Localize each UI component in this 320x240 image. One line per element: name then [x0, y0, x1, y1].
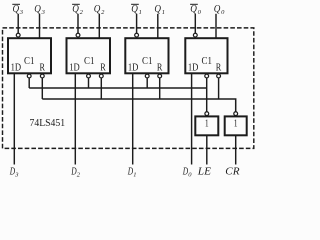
wire FF2 R to CR bus — [100, 78, 102, 99]
wire D1 input — [132, 74, 134, 165]
wire FF0 R to CR bus — [218, 78, 220, 99]
FF3 pin label 1D — [11, 61, 22, 73]
node Q0 label — [214, 4, 225, 16]
FF3 pin label R — [40, 61, 46, 73]
svg-text:1: 1 — [162, 9, 165, 16]
FF1 inverted output bubble — [135, 33, 139, 37]
svg-text:C1: C1 — [202, 55, 212, 67]
wire LE input — [206, 135, 208, 164]
buffer U2 (CR) body — [225, 116, 247, 135]
node Q2 label — [94, 4, 105, 16]
svg-text:R: R — [157, 61, 163, 73]
node D0 label — [182, 167, 192, 179]
FF1 R input bubble — [158, 74, 162, 78]
FF2 pin label R — [100, 61, 106, 73]
svg-text:C1: C1 — [84, 55, 94, 67]
overline for Q2-bar — [72, 3, 80, 5]
svg-text:CR: CR — [225, 167, 240, 178]
latch FF3 body — [8, 38, 51, 73]
wire Q2 output — [98, 14, 100, 38]
wire FF3 C1 to LE bus — [28, 78, 30, 88]
svg-text:Q: Q — [13, 4, 20, 15]
FF0 R input bubble — [217, 74, 221, 78]
buffer U1 (LE) body — [195, 116, 218, 135]
FF0 pin label C1 — [202, 55, 212, 67]
svg-text:Q: Q — [214, 4, 221, 15]
wire Q0 output — [215, 14, 217, 38]
svg-text:C1: C1 — [24, 55, 34, 67]
svg-text:1D: 1D — [128, 61, 139, 73]
svg-text:2: 2 — [77, 171, 81, 178]
IC package dashed boundary — [3, 28, 254, 148]
svg-text:Q: Q — [34, 4, 41, 15]
FF2 inverted output bubble — [76, 33, 80, 37]
FF2 pin label C1 — [84, 55, 94, 67]
node Q3-bar label — [13, 4, 24, 16]
svg-text:1: 1 — [133, 171, 136, 178]
FF1 pin label C1 — [142, 55, 152, 67]
wire D3 input — [13, 74, 15, 165]
FF0 pin label 1D — [188, 61, 199, 73]
svg-text:Q: Q — [190, 4, 197, 15]
wire FF3 R to CR bus — [41, 78, 43, 99]
wire Q0-bar output — [194, 14, 196, 33]
svg-text:1D: 1D — [69, 61, 80, 73]
FF3 inverted output bubble — [16, 33, 20, 37]
node CR label — [225, 167, 240, 178]
buffer U1 output bubble — [205, 112, 209, 116]
overline for Q0-bar — [190, 3, 198, 5]
svg-text:R: R — [40, 61, 46, 73]
wire FF0 C1 down to LE buffer output — [206, 78, 208, 112]
node D3 label — [9, 167, 19, 179]
wire Q3-bar output — [17, 14, 19, 33]
FF1 C1 input bubble — [145, 74, 149, 78]
node Q2-bar label — [72, 4, 83, 16]
svg-text:0: 0 — [221, 9, 225, 16]
buffer U1 label 1 — [205, 118, 209, 130]
svg-text:3: 3 — [19, 9, 24, 16]
wire FF2 C1 to LE bus — [88, 78, 90, 88]
svg-text:1: 1 — [139, 9, 142, 16]
FF3 C1 input bubble — [27, 74, 31, 78]
node LE label — [197, 167, 212, 178]
FF2 R input bubble — [99, 74, 103, 78]
overline for Q3-bar — [12, 3, 20, 5]
svg-text:0: 0 — [188, 171, 192, 178]
buffer U2 output bubble — [234, 112, 238, 116]
wire Q1-bar output — [136, 14, 138, 33]
label 74LS451 — [30, 117, 66, 129]
svg-text:1: 1 — [234, 118, 238, 130]
svg-text:R: R — [100, 61, 106, 73]
latch FF2 body — [67, 38, 111, 73]
wire Q3 output — [39, 14, 41, 38]
net CR bus — [42, 99, 235, 112]
node Q0-bar label — [190, 4, 201, 16]
wire CR input — [235, 135, 237, 164]
svg-text:2: 2 — [101, 9, 105, 16]
FF1 pin label R — [157, 61, 163, 73]
node Q1 label — [154, 4, 165, 16]
wire Q2-bar output — [77, 14, 79, 33]
svg-text:3: 3 — [41, 9, 46, 16]
FF0 pin label R — [216, 61, 222, 73]
svg-text:1: 1 — [205, 118, 209, 130]
svg-text:3: 3 — [14, 171, 19, 178]
overline for Q1-bar — [131, 3, 139, 5]
svg-text:1D: 1D — [11, 61, 22, 73]
svg-text:1D: 1D — [188, 61, 199, 73]
wire Q1 output — [157, 14, 159, 38]
svg-text:R: R — [216, 61, 222, 73]
wire D2 input — [74, 74, 76, 165]
node D2 label — [70, 167, 80, 179]
svg-text:C1: C1 — [142, 55, 152, 67]
svg-text:Q: Q — [131, 4, 138, 15]
FF2 pin label 1D — [69, 61, 80, 73]
FF1 pin label 1D — [128, 61, 139, 73]
svg-text:Q: Q — [72, 4, 79, 15]
FF3 pin label C1 — [24, 55, 34, 67]
FF2 C1 input bubble — [87, 74, 91, 78]
node Q1-bar label — [131, 4, 142, 16]
wire FF1 R to CR bus — [159, 78, 161, 99]
FF0 inverted output bubble — [193, 33, 197, 37]
wire FF1 C1 to LE bus — [146, 78, 148, 88]
FF0 C1 input bubble — [205, 74, 209, 78]
wire D0 input — [191, 74, 193, 165]
svg-text:LE: LE — [197, 167, 212, 178]
node Q3 label — [34, 4, 45, 16]
node D1 label — [127, 167, 137, 179]
FF3 R input bubble — [40, 74, 44, 78]
svg-text:2: 2 — [80, 9, 84, 16]
buffer U2 label 1 — [234, 118, 238, 130]
net LE bus — [29, 87, 207, 89]
latch FF1 body — [125, 38, 168, 73]
svg-text:Q: Q — [94, 4, 101, 15]
latch FF0 body — [185, 38, 227, 73]
svg-text:0: 0 — [198, 9, 202, 16]
svg-text:74LS451: 74LS451 — [30, 117, 66, 129]
svg-text:Q: Q — [154, 4, 161, 15]
